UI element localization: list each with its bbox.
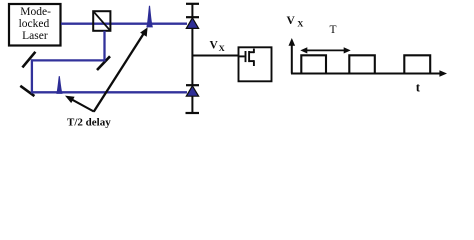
photodiode PD1 supply bar [186, 3, 199, 5]
svg-text:T: T [330, 24, 337, 36]
svg-text:t: t [416, 80, 421, 95]
mirror M1 top-right of delay loop [97, 56, 110, 70]
svg-text:X: X [219, 43, 226, 53]
svg-text:V: V [287, 15, 296, 27]
photodiode PD2 lead [191, 96, 193, 113]
laser box (Mode-locked Laser) [9, 4, 61, 46]
mirror M2 top-left of delay loop [22, 52, 35, 68]
wire beam lower delay line to photodiode PD2 [31, 91, 187, 93]
buffer box U1 [239, 47, 272, 81]
period T measurement arrow [300, 47, 350, 53]
waveform horizontal axis [291, 70, 447, 76]
beam splitter BS [93, 11, 110, 31]
photodiode PD2 supply bar [186, 112, 200, 114]
wire beam left vertical of delay loop [31, 59, 33, 93]
wire beam from laser to photodiode PD1 [61, 23, 187, 25]
photodiode PD1 triangle [186, 18, 198, 29]
wire beam upper delay line [31, 59, 106, 61]
waveform vertical axis [289, 38, 296, 74]
waveform pulse 1 [301, 55, 326, 73]
photodiode PD2 triangle [186, 86, 198, 96]
photodiode PD2 cathode bar [186, 84, 199, 86]
optical pulse on lower beam [57, 76, 62, 93]
svg-text:X: X [297, 18, 304, 28]
svg-text:T/2 delay: T/2 delay [67, 117, 111, 129]
waveform pulse 2 [349, 55, 375, 73]
long annotation arrow to upper pulse [94, 27, 148, 111]
sampling transistor glyph inside buffer [239, 49, 254, 66]
svg-text:Laser: Laser [22, 30, 48, 42]
optical pulse on upper beam [147, 6, 152, 27]
mirror M3 bottom-left of delay loop [20, 86, 34, 96]
wire beam down from splitter [103, 31, 105, 62]
photodiode PD1 cathode bar [186, 16, 199, 18]
waveform pulse 3 [404, 55, 430, 73]
svg-text:V: V [210, 39, 219, 51]
wire PD1 anode down to node Vx and PD2 [191, 28, 193, 85]
wire node Vx to buffer [192, 55, 238, 57]
svg-text:locked: locked [19, 18, 50, 30]
short annotation arrow to lower pulse [65, 96, 94, 112]
photodiode PD1 lead [191, 4, 193, 17]
svg-text:Mode-: Mode- [20, 6, 51, 18]
